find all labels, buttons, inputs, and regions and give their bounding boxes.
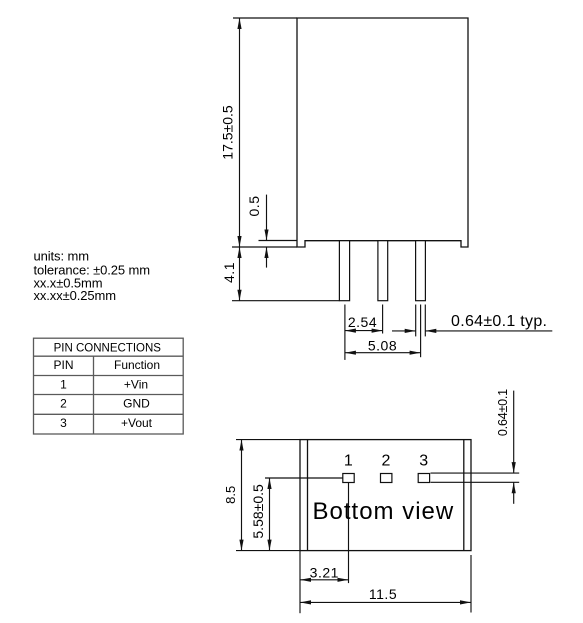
svg-text:xx.xx±0.25mm: xx.xx±0.25mm: [34, 288, 117, 303]
svg-text:0.5: 0.5: [246, 196, 262, 217]
svg-text:3: 3: [60, 416, 67, 430]
svg-text:8.5: 8.5: [223, 486, 238, 504]
svg-text:0.64±0.1: 0.64±0.1: [496, 389, 510, 436]
svg-text:2: 2: [60, 396, 67, 410]
svg-text:1: 1: [60, 378, 67, 392]
svg-text:PIN CONNECTIONS: PIN CONNECTIONS: [54, 342, 162, 354]
svg-text:5.58±0.5: 5.58±0.5: [250, 484, 266, 539]
svg-text:17.5±0.5: 17.5±0.5: [220, 105, 236, 160]
svg-text:+Vout: +Vout: [121, 416, 153, 430]
svg-text:GND: GND: [123, 396, 150, 410]
svg-text:3: 3: [419, 453, 428, 470]
svg-text:+Vin: +Vin: [124, 378, 148, 392]
svg-text:5.08: 5.08: [368, 337, 397, 353]
svg-text:Bottom view: Bottom view: [313, 498, 455, 525]
svg-text:4.1: 4.1: [221, 262, 237, 283]
svg-text:units: mm: units: mm: [34, 249, 89, 264]
svg-text:1: 1: [344, 453, 353, 470]
svg-text:2: 2: [382, 453, 391, 470]
svg-text:PIN: PIN: [53, 358, 73, 372]
svg-text:11.5: 11.5: [369, 586, 397, 602]
svg-text:2.54: 2.54: [348, 314, 377, 330]
svg-text:0.64±0.1 typ.: 0.64±0.1 typ.: [451, 313, 547, 330]
svg-text:3.21: 3.21: [310, 564, 339, 580]
svg-text:Function: Function: [114, 358, 160, 372]
